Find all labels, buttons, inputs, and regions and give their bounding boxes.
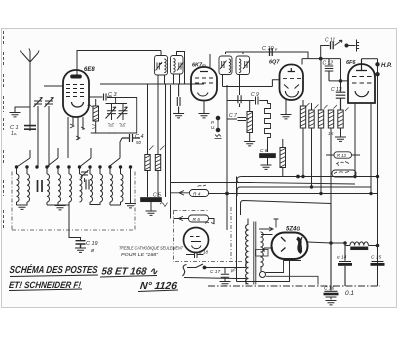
coil L2 bbox=[27, 174, 30, 202]
grid wire V4 bbox=[329, 80, 349, 82]
R3 leads bbox=[249, 101, 251, 142]
potentiometer zigzag bbox=[265, 104, 271, 141]
secondary bottom lead bbox=[260, 266, 262, 272]
mains wire bottom bbox=[184, 278, 246, 279]
svg-text:C 19: C 19 bbox=[86, 241, 98, 247]
vertical feed bbox=[236, 177, 238, 282]
V6 output lead bbox=[308, 242, 346, 243]
svg-text:R 4: R 4 bbox=[193, 192, 201, 198]
svg-text:C 13: C 13 bbox=[331, 87, 342, 93]
HT rail right bbox=[377, 59, 379, 286]
svg-text:C 8: C 8 bbox=[260, 148, 268, 154]
value 30 scribble bbox=[88, 105, 94, 107]
AVC wire bbox=[223, 80, 280, 87]
R11 lead bbox=[340, 128, 342, 137]
tube V5 triode 168 bbox=[184, 228, 209, 253]
IF transformer 2 can B bbox=[236, 56, 250, 75]
value ticks R1 R2 bbox=[149, 146, 165, 151]
capacitor C1 bbox=[24, 126, 36, 130]
capacitor C19 bbox=[76, 241, 86, 248]
switch lever 1 bbox=[18, 150, 31, 167]
R1 R2 bottom leads bbox=[148, 171, 159, 198]
V3 cathode lead bbox=[285, 100, 287, 114]
IF1A coil bbox=[164, 59, 166, 73]
svg-text:C 17: C 17 bbox=[210, 269, 220, 275]
ground C16 bbox=[326, 301, 337, 305]
resistor R osc bbox=[93, 106, 99, 121]
svg-text:C 11: C 11 bbox=[325, 38, 335, 44]
resistor box R13 bbox=[334, 152, 352, 158]
choke output lead bbox=[368, 245, 377, 247]
IF1B leads bbox=[174, 52, 185, 85]
scribble tube label bbox=[205, 222, 215, 224]
IF2B capacitor bbox=[243, 61, 250, 70]
capacitor C10 bbox=[270, 48, 273, 56]
ground C5 bbox=[146, 211, 157, 215]
R6 leads bbox=[282, 139, 284, 177]
capacitor C2 bbox=[38, 180, 43, 192]
lamp wires bbox=[266, 261, 319, 285]
HT post bbox=[274, 219, 279, 228]
switch lever 3 bbox=[80, 148, 92, 167]
HT arrow bbox=[259, 227, 273, 231]
AF rail bbox=[226, 85, 228, 230]
IF2B coil bbox=[239, 59, 241, 73]
R10 leads bbox=[330, 128, 332, 204]
V2 cathode lead bbox=[203, 101, 205, 114]
decoupling verticals bbox=[166, 84, 171, 219]
V4 leads down bbox=[355, 103, 371, 194]
screen dropper verticals bbox=[148, 84, 159, 155]
IF2A capacitor bbox=[220, 61, 227, 70]
wires coil bottoms bbox=[17, 202, 121, 205]
svg-text:R 13: R 13 bbox=[337, 153, 347, 158]
wire antenna to ground bbox=[15, 107, 30, 112]
svg-text:ET! SCHNEIDER F!: ET! SCHNEIDER F! bbox=[9, 280, 82, 290]
svg-text:50: 50 bbox=[136, 140, 142, 145]
svg-text:C 3: C 3 bbox=[108, 92, 118, 98]
tube V1 683 bbox=[63, 70, 89, 117]
junction dots buses bbox=[302, 175, 304, 177]
capacitor C4 bbox=[122, 134, 140, 142]
scribble C5 value bbox=[160, 203, 168, 207]
resistor R3 bbox=[247, 112, 253, 133]
svg-text:μF: μF bbox=[230, 268, 236, 273]
resistor box R5 bbox=[189, 215, 209, 222]
capacitor C13 bbox=[336, 92, 346, 110]
mains wire top bbox=[206, 267, 246, 269]
contact dot bbox=[345, 44, 348, 47]
switch lever C11 bbox=[335, 40, 343, 45]
IF transformer 1 can A bbox=[155, 56, 168, 76]
IF1B coil bbox=[173, 59, 175, 73]
trimmer cap small bbox=[86, 180, 89, 190]
resistor R9 bbox=[318, 110, 323, 128]
screen rail bbox=[340, 59, 342, 92]
switch contact dots bbox=[15, 165, 132, 168]
capacitor C11 bbox=[331, 42, 334, 50]
svg-text:e 14: e 14 bbox=[337, 255, 347, 261]
transformer core bbox=[254, 222, 256, 285]
V2 plate lead bbox=[209, 54, 211, 67]
svg-text:C 15: C 15 bbox=[371, 255, 381, 261]
IF1A leads bbox=[158, 51, 165, 85]
mains switch bbox=[187, 264, 203, 268]
svg-text:POUR LE “168”: POUR LE “168” bbox=[121, 252, 159, 257]
ground V3 bbox=[281, 115, 292, 119]
svg-text:6Q7: 6Q7 bbox=[269, 60, 280, 66]
switch lever 4 bbox=[109, 148, 121, 167]
coil L1 bbox=[17, 174, 20, 202]
svg-text:SCHÉMA DES POSTES: SCHÉMA DES POSTES bbox=[9, 263, 98, 276]
resistor box R4 bbox=[190, 190, 209, 197]
capacitor C15 bbox=[372, 261, 384, 263]
V6 bottom lead bbox=[237, 259, 290, 282]
rectifier filament box bbox=[256, 250, 269, 257]
wire dots to coils bbox=[17, 168, 131, 203]
title line 1 bbox=[7, 263, 179, 292]
dashed tuner boundary bbox=[12, 172, 135, 231]
svg-text:C 16: C 16 bbox=[324, 286, 334, 292]
resistor R11 1K bbox=[338, 110, 343, 128]
capacitor C5 bbox=[141, 198, 162, 202]
ground C17 bbox=[220, 282, 231, 286]
ground R11 bbox=[335, 137, 346, 141]
dashed 168 boundary bbox=[174, 207, 243, 262]
value scribbles under box bbox=[92, 125, 116, 134]
switch lever 2 bbox=[47, 148, 59, 167]
bus B1 bbox=[242, 176, 378, 178]
R7 leads bbox=[302, 100, 304, 177]
capacitor C17 bbox=[221, 268, 229, 282]
IF2A coil bbox=[229, 59, 231, 73]
wire to R4 with arrow bbox=[171, 191, 190, 196]
ground R3 bbox=[244, 142, 255, 146]
oscillator frame wires bbox=[91, 98, 137, 134]
pickup P.U. terminals bbox=[216, 116, 220, 120]
resistor R8 bbox=[309, 110, 314, 128]
capacitor C14 bbox=[339, 243, 351, 262]
title underlines bbox=[9, 275, 178, 292]
IF transformer 1 can B bbox=[171, 56, 184, 75]
resistor box R14 bbox=[332, 170, 356, 177]
capacitor C9 bbox=[227, 97, 268, 105]
wire C11 branch bbox=[321, 46, 330, 59]
choke input lead bbox=[345, 243, 350, 246]
bus B4 bbox=[241, 201, 332, 216]
tube V3 6Q7 bbox=[280, 65, 304, 101]
resistor R1 bbox=[145, 155, 150, 171]
coil L3 bbox=[47, 174, 50, 202]
junction dot bbox=[339, 80, 342, 83]
ground C19 bbox=[75, 248, 86, 252]
HP terminals bbox=[376, 63, 379, 66]
variable capacitor Ca bbox=[106, 104, 117, 121]
R9 leads bbox=[320, 59, 322, 194]
IF1A capacitor bbox=[156, 62, 163, 71]
mains plug curl bbox=[183, 265, 187, 277]
svg-text:C 9: C 9 bbox=[251, 92, 259, 98]
coil L9 bbox=[110, 174, 113, 202]
bus B2 bbox=[237, 187, 371, 196]
wire to R5 bbox=[174, 216, 189, 220]
tube V2 6K7 bbox=[191, 67, 217, 101]
wire R osc bbox=[95, 99, 97, 133]
resistor R7 bbox=[300, 106, 305, 128]
capacitor C7 bbox=[227, 118, 249, 121]
transformer secondary winding bbox=[261, 232, 264, 267]
svg-text:0.1: 0.1 bbox=[345, 290, 354, 297]
coil L5 bbox=[69, 174, 72, 202]
R8 leads bbox=[311, 103, 313, 187]
plate supply wire bbox=[226, 52, 341, 65]
trimmer pad bbox=[81, 170, 89, 182]
svg-text:C 5: C 5 bbox=[153, 193, 161, 199]
cathode squiggle marks bbox=[70, 124, 85, 140]
capacitor C6 bbox=[177, 84, 180, 114]
scribble H bbox=[336, 162, 349, 167]
capacitor C16 bbox=[325, 204, 338, 292]
pilot lamp bbox=[260, 272, 266, 278]
resistor R10 bbox=[328, 110, 333, 128]
IF transformer 2 can A bbox=[219, 56, 232, 75]
svg-text:C 18: C 18 bbox=[199, 250, 209, 255]
variable capacitor Cb bbox=[117, 104, 128, 121]
ground V2 bbox=[199, 114, 210, 118]
svg-text:C 12: C 12 bbox=[323, 61, 334, 67]
primary leads bbox=[246, 219, 248, 285]
svg-text:TREBLE CATHODIQUE SEULEMENT: TREBLE CATHODIQUE SEULEMENT bbox=[119, 246, 184, 251]
plate wire to HP bbox=[362, 58, 378, 60]
svg-text:6E8: 6E8 bbox=[84, 67, 95, 73]
wire secondary to V6 bbox=[261, 234, 273, 236]
svg-text:R 5: R 5 bbox=[193, 217, 201, 223]
tube V1 leads bbox=[68, 117, 83, 158]
svg-text:H.P.: H.P. bbox=[381, 63, 392, 69]
resistor R6 bbox=[280, 148, 286, 168]
main earth bus bbox=[208, 285, 380, 287]
scribble above R4 bbox=[198, 185, 207, 187]
coil L8 bbox=[100, 174, 103, 202]
trimmer capacitor bbox=[34, 98, 43, 168]
svg-text:ø: ø bbox=[91, 248, 94, 254]
bus B3 bbox=[209, 193, 378, 195]
cathode cap 168 bbox=[186, 252, 204, 259]
tick post bbox=[357, 40, 360, 52]
IF2 bottom leads bbox=[223, 75, 240, 96]
coil L7 bbox=[90, 174, 93, 202]
ground antenna bbox=[10, 113, 21, 117]
filter choke bbox=[350, 242, 368, 246]
resistor R2 bbox=[155, 155, 160, 171]
wire C19 feed bbox=[69, 205, 81, 240]
capacitor C8 bbox=[267, 141, 269, 153]
ground C8 bbox=[261, 165, 272, 169]
capacitor C3 bbox=[89, 94, 112, 101]
value ticks bbox=[306, 103, 349, 111]
IF2 top leads bbox=[226, 52, 244, 54]
wire grid to tube bbox=[44, 85, 63, 87]
bus B0 screen feed bbox=[171, 183, 356, 185]
R5 wire right bbox=[209, 219, 215, 225]
scan edge marks bbox=[3, 31, 5, 228]
tube V4 6F6 bbox=[348, 59, 375, 103]
ground coils mid bbox=[55, 206, 66, 210]
value scribbles gang bbox=[108, 124, 126, 127]
coil L6 bbox=[80, 174, 83, 202]
transformer primary winding bbox=[246, 225, 249, 284]
wire plate to IF1 bbox=[77, 51, 161, 76]
coil L4 bbox=[58, 174, 61, 202]
wire filament to V6 bbox=[264, 248, 273, 252]
heater bus wire bbox=[100, 83, 204, 85]
svg-text:U.: U. bbox=[211, 125, 216, 130]
tube V6 rectifier 5Z4G bbox=[272, 233, 308, 260]
antenna bbox=[21, 49, 40, 132]
junction dot bbox=[319, 57, 322, 60]
wire to post bbox=[348, 45, 356, 47]
ground coils left bbox=[17, 205, 28, 209]
capacitor C12 bbox=[325, 59, 334, 81]
ground C6 bbox=[173, 114, 184, 118]
coil L10 bbox=[121, 174, 124, 202]
wire C4 to switch bbox=[120, 138, 122, 158]
IF1B capacitor bbox=[177, 62, 184, 71]
trimmer capacitor bbox=[45, 98, 54, 168]
svg-text:C 7: C 7 bbox=[229, 113, 237, 119]
